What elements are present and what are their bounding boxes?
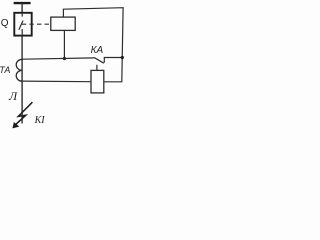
svg-text:КА: КА [91, 45, 104, 56]
short-circuit arrow K1 [15, 102, 33, 125]
junction dot B [121, 56, 124, 59]
relay coil KA top lead [96, 65, 98, 71]
svg-text:Л: Л [8, 89, 18, 103]
junction dot A [63, 57, 66, 60]
mechanical linkage (dashed) Q to trip coil [22, 23, 51, 25]
busbar [14, 2, 31, 4]
wire: trip coil top riser [63, 8, 123, 82]
circuit breaker Q box [14, 13, 31, 36]
wire: busbar to breaker box [21, 3, 23, 13]
relay coil KA box [91, 70, 104, 93]
wire: coil right to right vertical [104, 81, 123, 83]
breaker Q contact: top fixed lead [21, 13, 23, 17]
svg-text:ТА: ТА [0, 65, 10, 75]
arrowhead [12, 122, 19, 128]
svg-text:КI: КI [34, 115, 46, 126]
contact KA fixed stub and right wire [104, 58, 122, 63]
breaker Q contact: blade [19, 21, 23, 30]
wire: trip coil bottom lead [63, 30, 65, 58]
feeder line Л [21, 36, 23, 124]
contact KA blade [95, 58, 104, 64]
wire: TA bottom tap to coil [22, 80, 91, 83]
current transformer TA arcs [16, 59, 22, 81]
svg-text:Q: Q [1, 18, 9, 29]
trip coil box (YAT) [51, 17, 75, 30]
wire: TA top tap [22, 58, 95, 59]
breaker Q contact: bottom lead [21, 29, 23, 36]
